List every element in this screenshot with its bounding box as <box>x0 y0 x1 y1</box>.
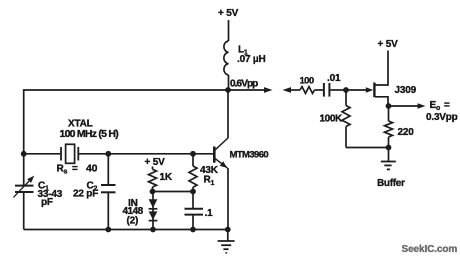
resistor 1K zigzag <box>149 169 157 187</box>
resistor 100K zigzag <box>342 106 350 127</box>
svg-text:Buffer: Buffer <box>377 178 405 189</box>
wire arrow to 100 resistor <box>291 89 301 91</box>
wire bias node to 43K bottom node <box>153 191 194 193</box>
capacitor C1 variable plates <box>15 186 34 192</box>
node junction dot diode bottom rail <box>150 227 156 233</box>
node junction dot .1 bottom rail <box>190 227 196 233</box>
node junction dot C2 top <box>105 151 111 157</box>
svg-text:0.3Vpp: 0.3Vpp <box>426 112 458 123</box>
svg-text:.01: .01 <box>327 73 341 84</box>
wire left rail to crystal <box>24 153 60 155</box>
diode D2 1N4148 triangle <box>149 211 158 220</box>
svg-text:Rs=40: Rs=40 <box>57 163 98 176</box>
wire +5V stub to 1K <box>152 167 154 170</box>
wire left rail to C1 top <box>23 154 25 186</box>
svg-text:100K: 100K <box>320 114 343 125</box>
svg-text:SeekIC.com: SeekIC.com <box>402 244 458 255</box>
svg-text:+ 5V: + 5V <box>145 157 166 168</box>
wire .01 to gate node <box>330 89 346 91</box>
svg-text:22 pF: 22 pF <box>73 188 98 199</box>
wire gate node to JFET gate arrow <box>346 89 367 91</box>
transistor J309 JFET symbol <box>374 51 388 107</box>
svg-text:Eo=: Eo= <box>430 100 451 112</box>
ground oscillator stub <box>227 230 229 241</box>
wire +5V stub to L1 <box>228 20 230 41</box>
svg-text:pF: pF <box>41 197 53 208</box>
svg-text:.07 µH: .07 µH <box>237 54 265 65</box>
transistor Q1 MTM3960 symbol <box>214 138 228 168</box>
wire .1 cap top stub <box>192 192 194 209</box>
node junction dot 0.6Vpp <box>225 87 231 93</box>
transistor Q1 collector wire <box>227 90 229 138</box>
wire 43K bottom lead <box>192 187 194 191</box>
svg-text:220: 220 <box>398 127 415 138</box>
svg-text:MTM3960: MTM3960 <box>230 149 269 160</box>
arrow left (buffer input) <box>283 87 292 93</box>
wire C2 top stub <box>107 154 109 185</box>
wire .1 cap bottom stub <box>192 215 194 230</box>
wire 100K top lead <box>345 90 347 106</box>
ground oscillator symbol <box>218 241 235 253</box>
node junction dot emitter bottom rail <box>225 227 231 233</box>
crystal Y1 right plate <box>77 147 79 161</box>
svg-text:.1: .1 <box>205 208 214 219</box>
arrow right (oscillator output) <box>264 87 273 93</box>
node junction dot 43K top <box>190 151 196 157</box>
capacitor C2 plates <box>101 185 116 192</box>
wire bottom rail <box>24 229 228 231</box>
wire buffer bottom rail <box>346 147 389 149</box>
ground buffer stub <box>388 148 390 162</box>
crystal Y1 left plate <box>60 147 62 161</box>
wire 100 to .01 cap <box>315 89 324 91</box>
node junction dot C2 bottom rail <box>105 227 111 233</box>
wire 43K top lead <box>192 154 194 166</box>
arrow output Eo <box>418 103 426 109</box>
wire 1K bottom to bias node <box>152 187 154 192</box>
node junction dot source <box>386 103 392 109</box>
wire diode string vertical <box>152 192 154 230</box>
svg-text:J309: J309 <box>395 85 417 96</box>
diode D1 1N4148 triangle <box>149 199 158 209</box>
node junction dot left rail / crystal branch <box>21 151 27 157</box>
svg-text:1K: 1K <box>160 172 173 183</box>
wire 100K bottom lead <box>345 127 347 148</box>
svg-text:(2): (2) <box>127 216 139 227</box>
capacitor C1 adjustment arrow <box>14 176 35 198</box>
svg-text:+ 5V: + 5V <box>218 8 239 19</box>
node junction dot 1K bottom <box>150 189 156 195</box>
wire C2 bottom stub <box>107 192 109 229</box>
wire 220 top lead <box>388 106 390 121</box>
capacitor .1 plates <box>185 209 204 215</box>
svg-text:100: 100 <box>300 76 314 87</box>
wire L1 bottom to node <box>228 75 230 90</box>
inductor L1 coil <box>224 41 229 75</box>
node junction dot buffer ground <box>386 145 392 151</box>
wire feedback: node to left rail top <box>24 90 228 154</box>
ground buffer symbol <box>381 162 396 170</box>
svg-text:+ 5V: + 5V <box>378 39 399 50</box>
node junction dot 43K bottom <box>190 189 196 195</box>
wire 220 bottom lead <box>388 137 390 148</box>
resistor 220 zigzag <box>385 121 393 137</box>
node junction dot gate/100K <box>343 87 349 93</box>
arrow gate (into JFET) <box>366 87 374 93</box>
resistor 100 zigzag <box>300 87 315 94</box>
wire Q1 emitter to bottom rail <box>227 168 229 230</box>
crystal Y1 body rectangle <box>66 144 75 163</box>
svg-text:0.6Vpp: 0.6Vpp <box>230 78 258 89</box>
resistor 43K R1 zigzag <box>189 166 197 187</box>
wire crystal to transistor base <box>79 153 213 155</box>
wire output from source <box>389 105 418 107</box>
wire output arrow line from node <box>228 89 265 91</box>
capacitor .01 plates <box>324 83 330 97</box>
svg-text:100 MHz (5 H): 100 MHz (5 H) <box>60 128 119 140</box>
svg-text:R1: R1 <box>204 175 215 187</box>
wire left rail C1 bottom to bottom corner <box>23 193 25 230</box>
